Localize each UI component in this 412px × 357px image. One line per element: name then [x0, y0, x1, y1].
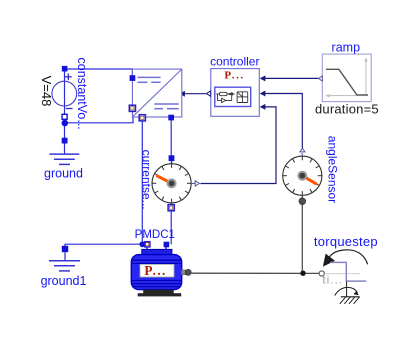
- wire motor shaft to torquestep: [191, 272, 319, 274]
- node motor left junction: [139, 241, 145, 247]
- controller output connector: [207, 91, 211, 96]
- pin motor p: [145, 242, 150, 247]
- pin converter dc_p2: [168, 115, 174, 121]
- svg-text:angleSensor: angleSensor: [325, 136, 339, 203]
- svg-text:P...: P...: [144, 263, 166, 278]
- svg-text:ground1: ground1: [41, 274, 87, 288]
- pin converter dc_p1: [130, 75, 136, 81]
- svg-text:constantVo...: constantVo...: [75, 58, 89, 130]
- wire angle sensor shaft down: [301, 196, 303, 273]
- svg-text:P...: P...: [224, 70, 244, 82]
- pin converter dc_n1: [129, 105, 135, 111]
- ramp output connector: [319, 76, 323, 81]
- wire controller output to converter: [185, 93, 207, 95]
- angle sensor: [283, 153, 322, 196]
- svg-text:ti...: ti...: [323, 275, 344, 287]
- wire ground1 to motor left node: [65, 244, 142, 249]
- ground1: [49, 246, 80, 271]
- pin motor n: [164, 242, 170, 248]
- current sensor: [152, 160, 191, 207]
- ground: [50, 138, 80, 165]
- wire converter dc_p2 down to current sensor: [170, 118, 172, 158]
- torquestep flange connector: [319, 271, 324, 276]
- wire current sensor to controller: [201, 107, 277, 184]
- wire voltage source to ground: [64, 123, 66, 141]
- pin current sensor p: [169, 155, 175, 161]
- svg-text:ramp: ramp: [332, 40, 361, 54]
- svg-text:PMDC1: PMDC1: [135, 229, 175, 241]
- pin converter dc_n2: [139, 115, 145, 121]
- wire V- to converter left-bottom pin: [65, 108, 133, 123]
- node shaft junction: [300, 271, 305, 276]
- wire ramp to controller: [264, 77, 319, 79]
- svg-text:ground: ground: [44, 167, 83, 181]
- wire V+ to converter top-left pin: [65, 69, 133, 78]
- svg-text:V=48: V=48: [39, 76, 54, 107]
- converter U1 (DC/DC): [132, 69, 181, 117]
- angle sensor output connector (up): [300, 148, 305, 152]
- wire current sensor to motor right pin: [170, 210, 172, 244]
- wire converter dc_n2 down to motor left node: [141, 118, 143, 244]
- constant voltage source V1: [52, 66, 77, 126]
- pin current sensor n: [168, 205, 174, 211]
- svg-text:currentse...: currentse...: [140, 150, 154, 210]
- svg-text:controller: controller: [210, 55, 259, 69]
- wire angleSensor to controller: [264, 94, 302, 149]
- svg-text:torquestep: torquestep: [314, 234, 378, 249]
- svg-text:duration=5: duration=5: [315, 101, 379, 116]
- current sensor output connector: [191, 182, 195, 184]
- angle sensor flange: [299, 198, 306, 205]
